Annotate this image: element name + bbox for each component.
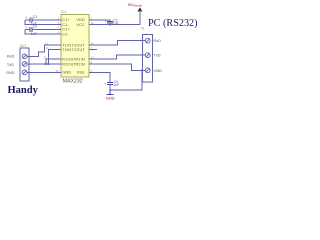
svg-text:R1OUT: R1OUT	[62, 58, 76, 62]
svg-text:+: +	[25, 16, 27, 20]
capacitor C4	[107, 83, 113, 85]
svg-text:1uF: 1uF	[113, 83, 119, 87]
wire V+ row	[89, 20, 110, 21]
svg-text:MAX232: MAX232	[63, 79, 83, 85]
wire R1OUT jog	[46, 59, 61, 64]
SV1 pin 3 GND	[22, 70, 27, 75]
junction T2IN/TxD	[47, 63, 49, 65]
junction C4/GND	[109, 89, 111, 91]
wire T2IN jog	[48, 50, 61, 64]
svg-text:RxD: RxD	[154, 39, 162, 43]
connector SV1 box	[20, 48, 29, 81]
wire V- row	[89, 72, 110, 82]
capacitor C3	[107, 21, 113, 23]
svg-text:GND: GND	[6, 71, 15, 75]
junction dots	[45, 24, 143, 91]
IC pin names	[62, 18, 85, 74]
svg-text:C1+: C1+	[62, 18, 70, 22]
wire GND left	[27, 71, 61, 73]
svg-text:R2IN: R2IN	[75, 62, 84, 66]
svg-text:1uF: 1uF	[31, 32, 37, 36]
svg-text:R2OUT: R2OUT	[62, 62, 76, 66]
X1 pin 3 GND	[145, 68, 150, 73]
svg-text:5V/Handy: 5V/Handy	[128, 3, 143, 8]
svg-text:GND: GND	[62, 71, 71, 75]
X1 pin 1 RxD	[145, 38, 150, 43]
svg-text:TxD: TxD	[154, 54, 161, 58]
svg-text:C2: C2	[33, 25, 37, 29]
wire VCC to 5V	[89, 12, 140, 25]
svg-text:T1IN: T1IN	[62, 43, 71, 47]
wire PC GND down	[110, 70, 142, 90]
svg-text:VDD: VDD	[76, 18, 85, 22]
C1 labels	[25, 15, 119, 87]
svg-text:C2+: C2+	[62, 28, 70, 32]
wire R1IN to PC TxD	[89, 55, 145, 59]
svg-text:T2IN: T2IN	[62, 48, 71, 52]
power arrow +5V	[137, 7, 142, 11]
capacitor C2	[30, 27, 32, 32]
wire R2IN to GND	[89, 64, 145, 70]
svg-text:+: +	[105, 20, 107, 24]
ground symbol	[107, 90, 114, 95]
svg-text:C2-: C2-	[62, 32, 69, 36]
junction R1OUT/TxD	[45, 63, 47, 65]
wire T1IN from Handy RxD	[27, 45, 61, 56]
svg-text:VEE: VEE	[77, 71, 85, 75]
wire T2OUT stub	[89, 49, 97, 51]
SV1 pin 1 RxD	[22, 54, 27, 59]
svg-text:SV1: SV1	[20, 44, 27, 48]
svg-text:C1: C1	[33, 15, 37, 19]
svg-text:RxD: RxD	[7, 55, 15, 59]
wire T1OUT to PC RxD	[89, 41, 145, 45]
connector SV1 pins	[22, 54, 27, 75]
wire C1+ row	[32, 19, 61, 21]
wire TxD to R2OUT	[27, 63, 61, 65]
svg-text:GND: GND	[106, 96, 115, 101]
SV1 pin 2 TxD	[22, 62, 27, 67]
svg-text:R1IN: R1IN	[75, 58, 84, 62]
svg-text:IC1: IC1	[61, 10, 67, 14]
junction GND branch	[141, 69, 143, 71]
svg-text:+: +	[25, 26, 27, 30]
svg-text:1uF: 1uF	[113, 21, 119, 25]
IC U1 body MAX232	[61, 15, 89, 78]
svg-text:Handy: Handy	[8, 85, 39, 96]
svg-text:T1OUT: T1OUT	[72, 43, 86, 47]
svg-text:+: +	[104, 82, 106, 86]
IC pin numbers	[43, 16, 94, 73]
svg-text:PC (RS232): PC (RS232)	[148, 18, 198, 29]
connector X1 pins	[145, 38, 150, 73]
svg-text:T2OUT: T2OUT	[72, 48, 86, 52]
svg-text:X1: X1	[141, 26, 145, 30]
svg-text:TxD: TxD	[7, 63, 14, 67]
svg-text:VCC: VCC	[76, 23, 85, 27]
wire C2+ row	[32, 28, 61, 30]
X1 pin 2 TxD	[145, 53, 150, 58]
svg-text:GND: GND	[154, 69, 163, 73]
capacitor C1	[30, 17, 32, 22]
SV1 signal names	[6, 39, 162, 75]
svg-text:C1-: C1-	[62, 23, 69, 27]
junction C3/VCC	[109, 24, 111, 26]
connector X1 box	[142, 35, 152, 83]
